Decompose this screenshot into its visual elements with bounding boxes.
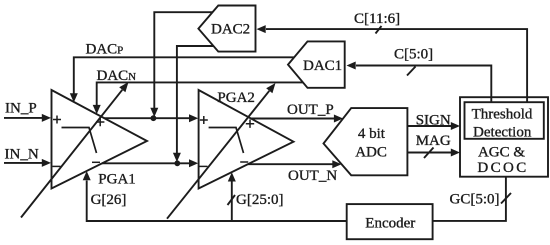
svg-text:DAC2: DAC2 [211,22,250,38]
svg-text:MAG: MAG [416,133,451,149]
svg-text:IN_P: IN_P [5,101,37,117]
wire PGA1 negative output to PGA2 [102,159,198,167]
svg-text:C[5:0]: C[5:0] [394,46,433,62]
wire G[26] gain control into PGA1 [83,171,91,180]
svg-text:GC[5:0]: GC[5:0] [450,191,500,207]
block Encoder [347,204,433,239]
wire DAC_P from DAC1 to PGA1 input [70,57,294,102]
wire GC[5:0] AGC to Encoder with bus slash [433,177,511,221]
svg-text:DCOC: DCOC [477,160,528,176]
svg-text:C[11:6]: C[11:6] [354,11,400,27]
block Threshold Detection [465,102,544,139]
wire SIGN ADC to AGC [407,122,460,130]
op-amp PGA1 [52,90,148,189]
wire OUT_N PGA2 to ADC [248,160,342,168]
svg-text:IN_N: IN_N [5,146,39,162]
svg-text:OUT_N: OUT_N [288,168,337,184]
svg-text:4 bit: 4 bit [358,126,386,142]
block AGC & DCOC [460,97,548,177]
wire C[5:0] Threshold to DAC1 with bus slash [347,62,492,103]
svg-text:DACN: DACN [97,68,137,84]
svg-text:Threshold: Threshold [472,107,533,123]
ADC U3 4-bit ADC [324,108,408,175]
wire IN_N input [4,159,51,167]
wire Encoder feedback bus to gain controls [87,181,347,222]
svg-text:G[25:0]: G[25:0] [236,192,284,208]
svg-text:SIGN: SIGN [416,113,451,129]
label 4 bit ADC [355,126,387,161]
svg-text:OUT_P: OUT_P [287,102,334,118]
wire G[25:0] gain control into PGA2 with bus slash [228,172,236,221]
wire IN_P input [4,114,51,122]
svg-text:AGC &: AGC & [478,144,525,160]
wire PGA1 positive output to PGA2 [104,114,198,122]
label AGC & DCOC [477,144,528,176]
wire DAC2 output P to upper node [150,12,212,117]
PGA2 gain control arrow [167,83,276,219]
svg-text:ADC: ADC [355,145,387,161]
svg-text:PGA2: PGA2 [217,90,255,106]
svg-text:G[26]: G[26] [91,192,127,208]
DAC U1 DAC1 [288,41,345,87]
wire C[11:6] Threshold to DAC2 with bus slash [257,25,528,102]
PGA1 gain control arrow [21,82,129,218]
label Threshold Detection [472,107,533,141]
node junction dot upper [151,115,157,121]
wire OUT_P PGA2 to ADC [251,115,343,123]
svg-text:DACP: DACP [86,42,124,58]
DAC U2 DAC2 [198,6,255,52]
wire MAG ADC to AGC with bus slash [407,148,460,159]
op-amp PGA2 [199,90,294,189]
wire DAC_N from DAC1 to PGA1 input [93,82,303,114]
svg-text:Encoder: Encoder [365,216,415,232]
svg-text:PGA1: PGA1 [98,171,136,187]
wire DAC2 output N to lower node [173,46,214,162]
node junction dot lower [174,160,180,166]
svg-text:DAC1: DAC1 [303,58,342,74]
svg-text:Detection: Detection [473,124,532,140]
